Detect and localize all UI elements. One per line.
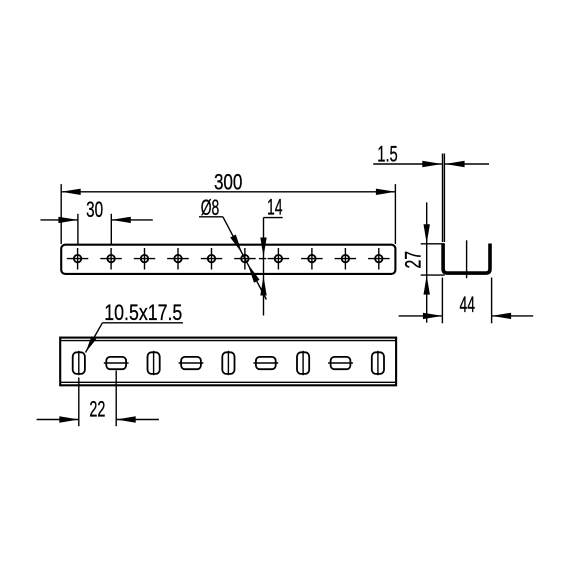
hole 8 crosshair horizontal	[301, 258, 323, 260]
hole 7 crosshair horizontal	[268, 258, 290, 260]
dimension 44 tail left	[399, 315, 443, 317]
slot 3 vertical oblong	[148, 352, 160, 374]
hole 4 circle	[174, 255, 181, 262]
dimension 44 arrow left	[423, 313, 443, 319]
dimension 300 line	[61, 191, 395, 193]
slot 9 centerline	[377, 351, 379, 375]
dimension 14 arrow up	[260, 276, 266, 296]
bottom view inner top line	[60, 340, 396, 342]
slot 4 horizontal oblong	[181, 357, 201, 369]
dimension 22 arrow right	[116, 416, 136, 422]
top view bar outline	[61, 245, 395, 274]
dimension 14 arrow down	[260, 238, 266, 258]
slot 6 horizontal oblong	[256, 357, 276, 369]
bottom view bar outline	[60, 338, 396, 386]
dimension 14 shoulder	[264, 217, 283, 219]
hole 6 crosshair horizontal	[234, 258, 256, 260]
dimension 44 arrow right	[492, 313, 512, 319]
dimension 44 tail right	[492, 315, 534, 317]
slot 5 centerline	[227, 351, 229, 375]
dimension 30 arrow left	[58, 217, 78, 223]
bottom view inner bottom line	[60, 381, 396, 383]
svg-text:1.5: 1.5	[377, 141, 398, 166]
dimension 30 extension line left	[77, 214, 79, 244]
dimension 44 extension right	[491, 278, 493, 324]
hole 6 centerline dash	[259, 258, 266, 260]
slot 8 horizontal oblong	[331, 357, 351, 369]
svg-text:44: 44	[460, 292, 476, 317]
thickness extension line inner	[443, 154, 445, 243]
dimension 300 extension line left	[60, 184, 62, 244]
hole 3 crosshair horizontal	[134, 258, 155, 260]
hole 4 crosshair horizontal	[167, 258, 189, 260]
svg-text:300: 300	[214, 169, 243, 194]
hole 7 crosshair vertical	[277, 248, 279, 270]
svg-text:Ø8: Ø8	[201, 195, 220, 220]
hole 6 circle	[241, 255, 248, 262]
slot 7 vertical oblong	[297, 352, 309, 374]
dimension 44 extension left	[441, 278, 443, 324]
hole 9 crosshair horizontal	[335, 258, 357, 260]
label 10.5x17.5 leader	[86, 323, 103, 353]
dimension 14 vertical line	[263, 218, 265, 316]
dimension 27 arrow down	[424, 224, 430, 244]
dimension 30 tail left	[41, 219, 78, 221]
diameter 8 arrow lower	[248, 264, 260, 283]
dimension 30 tail right	[111, 219, 153, 221]
section centerline	[466, 240, 468, 278]
hole 1 crosshair vertical	[77, 248, 79, 270]
hole 3 crosshair vertical	[144, 248, 146, 270]
slot 3 centerline	[153, 351, 155, 375]
slot 1 centerline	[78, 351, 80, 375]
dimension 300 arrow right	[376, 189, 396, 195]
slot 8 centerline	[328, 362, 353, 364]
svg-text:22: 22	[89, 396, 105, 421]
dimension 27 line	[426, 202, 428, 322]
slot 2 centerline	[104, 362, 129, 364]
dimension 1.5 tail right	[445, 163, 489, 165]
hole 8 crosshair vertical	[311, 248, 313, 270]
hole 2 crosshair horizontal	[100, 258, 122, 260]
dimension 27 extension top	[421, 243, 445, 245]
hole 9 crosshair vertical	[344, 248, 346, 270]
slot 9 vertical oblong	[372, 352, 384, 374]
label 10.5x17.5 underline	[102, 322, 182, 324]
svg-text:14: 14	[267, 194, 283, 219]
hole 4 crosshair vertical	[177, 248, 179, 270]
thickness extension line outer	[442, 154, 444, 243]
hole 6 crosshair vertical	[244, 248, 246, 270]
hole 3 circle	[141, 255, 148, 262]
dimension 22 extension line left	[78, 378, 80, 427]
slot 7 centerline	[302, 351, 304, 375]
hole 5 circle	[208, 255, 215, 262]
hole 2 circle	[107, 255, 114, 262]
diameter 8 arrow upper	[230, 235, 242, 254]
hole 2 crosshair vertical	[110, 248, 112, 270]
slot 5 vertical oblong	[222, 352, 234, 374]
label 10.5x17.5 arrow	[86, 336, 97, 352]
dimension 1.5 arrow right	[445, 161, 465, 167]
diameter 8 leader line	[223, 217, 267, 300]
dimension 300 arrow left	[61, 189, 80, 195]
dimension 300 extension line right	[394, 184, 396, 244]
slot 2 horizontal oblong	[106, 357, 126, 369]
dimension 1.5 arrow left	[422, 161, 442, 167]
dimension 30 extension line right	[110, 214, 112, 244]
dimension 30 arrow right	[111, 217, 131, 223]
dimension 22 arrow left	[59, 416, 79, 422]
dimension 22 tail left	[37, 419, 79, 421]
hole 1 circle	[74, 255, 81, 262]
svg-text:10.5x17.5: 10.5x17.5	[104, 300, 182, 325]
section profile	[443, 244, 490, 274]
svg-text:27: 27	[400, 251, 425, 269]
hole 10 circle	[375, 255, 382, 262]
hole 5 crosshair vertical	[211, 248, 213, 270]
hole 9 circle	[342, 255, 349, 262]
hole 10 crosshair horizontal	[368, 258, 390, 260]
slot 6 centerline	[253, 362, 278, 364]
dimension 27 extension bottom	[421, 274, 445, 276]
dimension 22 tail right	[116, 419, 159, 421]
diameter 8 underline	[199, 216, 223, 218]
hole 10 crosshair vertical	[378, 248, 380, 270]
hole 1 crosshair horizontal	[67, 258, 89, 260]
hole 5 crosshair horizontal	[201, 258, 222, 260]
dimension 27 arrow up	[424, 275, 430, 295]
hole 7 circle	[275, 255, 282, 262]
slot 1 vertical oblong	[73, 352, 85, 374]
svg-text:30: 30	[86, 197, 103, 222]
dimension 1.5 tail left	[373, 163, 442, 165]
dimension 22 extension line right	[115, 371, 117, 427]
hole 8 circle	[308, 255, 315, 262]
slot 4 centerline	[179, 362, 204, 364]
